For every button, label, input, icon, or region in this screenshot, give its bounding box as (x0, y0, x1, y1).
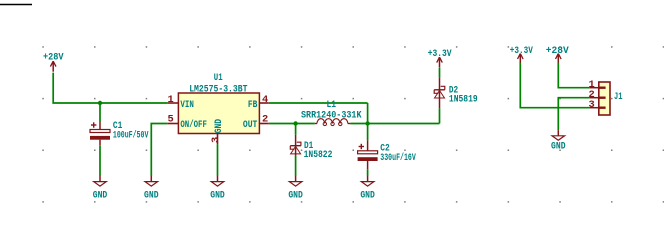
svg-text:SRR1240-331K: SRR1240-331K (301, 110, 362, 122)
svg-text:+28V: +28V (43, 52, 64, 64)
svg-text:1N5822: 1N5822 (304, 149, 333, 161)
svg-text:OUT: OUT (243, 119, 258, 131)
svg-text:+3.3V: +3.3V (428, 48, 452, 60)
svg-text:GND: GND (213, 119, 225, 133)
svg-text:FB: FB (248, 99, 258, 111)
svg-text:GND: GND (288, 189, 303, 201)
svg-text:330uF/16V: 330uF/16V (380, 152, 416, 164)
svg-text:2: 2 (262, 114, 268, 126)
svg-text:5: 5 (168, 114, 174, 126)
svg-text:100uF/50V: 100uF/50V (113, 130, 149, 142)
svg-text:GND: GND (551, 141, 566, 153)
svg-text:GND: GND (210, 189, 225, 201)
svg-text:3: 3 (210, 137, 222, 143)
svg-text:VIN: VIN (180, 99, 194, 111)
svg-text:+3.3V: +3.3V (510, 45, 534, 57)
svg-text:LM2575-3.3BT: LM2575-3.3BT (189, 84, 247, 96)
svg-text:ON/OFF: ON/OFF (180, 119, 207, 131)
svg-text:GND: GND (360, 189, 375, 201)
svg-text:U1: U1 (214, 72, 223, 84)
svg-text:4: 4 (262, 94, 268, 106)
svg-text:J1: J1 (614, 91, 623, 103)
svg-text:1N5819: 1N5819 (449, 94, 478, 106)
svg-text:3: 3 (589, 99, 595, 111)
svg-text:1: 1 (168, 94, 174, 106)
svg-text:+28V: +28V (546, 45, 570, 57)
svg-text:GND: GND (144, 189, 159, 201)
svg-text:GND: GND (93, 189, 108, 201)
